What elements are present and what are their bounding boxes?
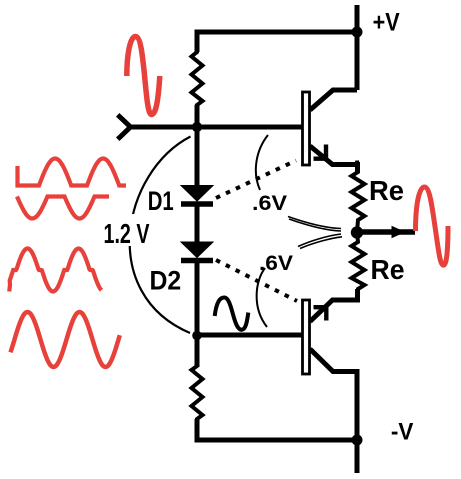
svg-text:1.2 V: 1.2 V	[104, 218, 150, 249]
transistor Q1 base bar	[303, 92, 310, 165]
wire bottom rail	[195, 438, 358, 443]
output wire arrow	[357, 226, 415, 238]
diode D2	[181, 242, 213, 261]
leader arc .6V lower	[257, 268, 267, 327]
white gap for 1.2V label	[100, 214, 168, 246]
resistor R1 (upper bias)	[192, 32, 203, 127]
svg-text:.6V: .6V	[259, 252, 293, 275]
wire input base Q1	[130, 125, 302, 130]
svg-text:-V: -V	[391, 418, 414, 445]
resistor R2 (lower bias)	[192, 335, 203, 440]
resistor Re upper	[352, 161, 365, 233]
svg-text:D2: D2	[150, 266, 182, 296]
node +V junction	[352, 27, 363, 38]
1.2V brace arc	[130, 137, 191, 334]
waveform clean sine (red)	[11, 312, 120, 367]
input arrow terminal	[120, 117, 131, 138]
svg-text:.6V: .6V	[252, 192, 287, 215]
waveform input sine (red)	[127, 37, 160, 115]
dashed line D1 to Q1	[216, 161, 296, 199]
black sine symbol	[215, 297, 249, 329]
transistor Q1 emitter	[310, 146, 358, 173]
svg-text:+V: +V	[373, 9, 400, 37]
wire +V stub	[355, 5, 360, 90]
node -V junction	[352, 435, 363, 446]
transistor Q1 emitter arrow	[314, 145, 329, 159]
svg-text:Re: Re	[369, 175, 404, 206]
transistor Q2 emitter arrow	[314, 307, 329, 321]
node lower junction	[192, 331, 202, 341]
waveform half-wave positive (red)	[18, 159, 127, 186]
wire top rail	[195, 30, 358, 35]
pointer fan to .6V labels	[288, 217, 342, 249]
transistor Q2 emitter	[310, 289, 358, 322]
transistor Q1 collector	[310, 90, 357, 110]
leader arc .6V upper	[256, 135, 268, 190]
transistor Q2 base bar	[303, 300, 310, 374]
wire between diodes	[195, 204, 200, 245]
waveform half-wave negative (red)	[17, 197, 109, 219]
waveform output sine (red)	[416, 187, 449, 265]
node input junction	[192, 122, 202, 132]
svg-text:D1: D1	[148, 186, 174, 216]
svg-text:Re: Re	[371, 254, 405, 285]
transistor Q2 collector	[310, 349, 357, 440]
waveform crossover distortion (red)	[9, 249, 101, 292]
wire left rail lower	[195, 419, 200, 443]
wire left rail upper	[195, 30, 200, 53]
diode D1	[181, 186, 213, 205]
dashed line D2 to Q2	[216, 260, 297, 301]
wire D2 to lower node	[195, 261, 200, 367]
wire base Q2	[197, 333, 302, 338]
resistor Re lower	[352, 232, 365, 298]
node output junction	[351, 226, 363, 238]
wire -V stub	[355, 440, 360, 473]
wire left rail to input node	[195, 105, 200, 188]
